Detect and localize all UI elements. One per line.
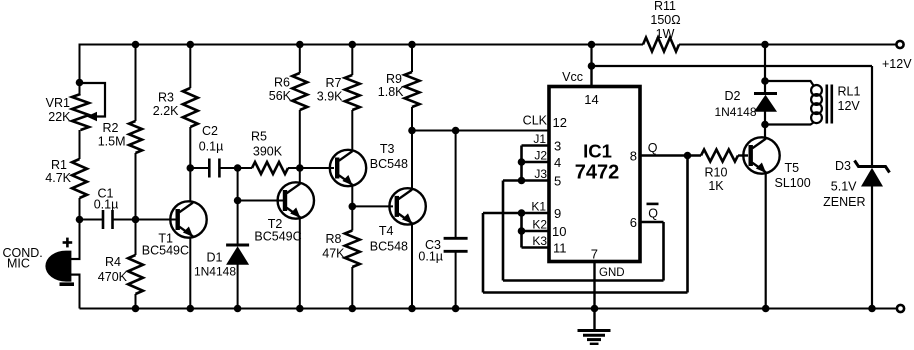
wire T2 collector [299, 168, 301, 184]
svg-text:0.1µ: 0.1µ [199, 140, 224, 154]
transistor T1 BC549C [170, 201, 206, 237]
transistor T2 BC549C [278, 182, 314, 218]
wire T4 collector [411, 131, 413, 190]
resistor R2 [129, 121, 142, 153]
node R3 top rail junction [187, 41, 195, 49]
diode D1 1N4148 [226, 244, 249, 247]
svg-text:J1: J1 [533, 132, 546, 146]
wire R5 right lead [288, 167, 334, 169]
wire R4 bottom lead [135, 294, 137, 309]
svg-text:D1: D1 [207, 251, 223, 265]
wire mic + stub [70, 258, 81, 260]
wire Qbar pin 6 [640, 221, 664, 224]
svg-text:K2: K2 [532, 218, 547, 232]
svg-text:R7: R7 [326, 76, 342, 90]
wire T5 emitter to rail [765, 173, 767, 309]
node R6 top rail junction [296, 41, 304, 49]
svg-text:R1: R1 [51, 158, 67, 172]
svg-text:T4: T4 [379, 224, 394, 238]
svg-text:K3: K3 [532, 234, 547, 248]
node R2 top rail junction [132, 41, 140, 49]
wire T1 collector [189, 168, 191, 202]
diode D2 1N4148 [754, 92, 777, 95]
svg-text:1.5M: 1.5M [98, 135, 126, 149]
transistor T4 BC548 [389, 188, 425, 224]
node C2 left junction [187, 164, 195, 172]
wire mic - stub [70, 274, 81, 276]
svg-text:Q: Q [648, 207, 658, 221]
wire T3 emitter junction to T4 base [352, 205, 393, 207]
node T1 base junction [132, 216, 140, 224]
wire relay coil top lead [765, 81, 814, 86]
svg-text:R8: R8 [326, 232, 342, 246]
wire CLK line [412, 130, 548, 132]
condenser mic body [45, 251, 71, 282]
wire D3 bottom lead [871, 187, 873, 309]
wire R3 bottom to C2 node [189, 127, 191, 168]
svg-text:IC1: IC1 [583, 141, 612, 162]
svg-text:3.9K: 3.9K [317, 90, 343, 104]
svg-text:10: 10 [552, 224, 566, 239]
svg-text:6: 6 [630, 215, 637, 230]
node K2 junction [518, 227, 526, 235]
wire R7 to T3 collector [351, 110, 353, 151]
svg-text:BC549C: BC549C [142, 244, 189, 258]
transistor T5 SL100 [743, 137, 779, 173]
svg-text:14: 14 [584, 92, 598, 107]
svg-text:1N4148: 1N4148 [194, 265, 236, 279]
node relay bottom junction [761, 121, 769, 129]
svg-text:C2: C2 [202, 124, 218, 138]
resistor R10 1K [701, 150, 738, 162]
svg-text:R2: R2 [103, 121, 119, 135]
wire R10 right lead to T5 base [738, 154, 748, 156]
wire VR1-R1 [79, 130, 81, 159]
wire C2 right lead [219, 167, 252, 169]
svg-text:CLK: CLK [523, 114, 548, 128]
wire J chain vertical [520, 146, 523, 181]
svg-text:56K: 56K [269, 89, 292, 103]
wire bottom rail [80, 308, 898, 310]
wire R9 bottom to CLK node [411, 107, 413, 131]
svg-text:5: 5 [554, 174, 561, 189]
node T2 base junction [234, 197, 242, 205]
svg-text:5.1V: 5.1V [831, 180, 857, 194]
wire C1 right lead [113, 219, 136, 221]
wire T3 emitter to junction [351, 185, 353, 206]
node D1 bottom rail junction [234, 305, 242, 313]
capacitor C1 plates [102, 210, 105, 229]
wire R4 top lead [135, 220, 137, 256]
resistor R8 [345, 231, 360, 268]
wire R9 top lead [411, 45, 413, 73]
node J2 junction [518, 158, 526, 166]
wire pin14 Vcc lead [590, 66, 592, 87]
node T3 emitter junction [349, 203, 357, 211]
relay core bars [825, 85, 828, 124]
node T5 emitter rail junction [762, 305, 770, 313]
resistor R9 [405, 72, 420, 107]
resistor R4 [128, 255, 143, 294]
svg-text:1N4148: 1N4148 [714, 105, 756, 119]
svg-text:47K: 47K [322, 247, 345, 261]
resistor R1 [72, 159, 87, 198]
wire K chain vertical [520, 213, 523, 248]
node Q feedback junction [684, 152, 692, 160]
node T2 collector junction [296, 164, 304, 172]
wire R1 to C1 node [79, 198, 81, 220]
svg-text:BC549C: BC549C [254, 230, 301, 244]
node T5 top rail junction [761, 41, 769, 49]
wire K feedback right vertical [686, 156, 689, 293]
wire J3 pin 5 [522, 179, 550, 182]
node Vcc sub-rail junction [588, 62, 596, 70]
wire R2 top lead [135, 45, 137, 122]
svg-text:R10: R10 [705, 166, 728, 180]
svg-text:7: 7 [591, 247, 598, 262]
svg-text:1W: 1W [656, 27, 675, 41]
wire J feedback bottom [503, 279, 664, 282]
zener D3 triangle [861, 168, 883, 187]
wire C3 bottom lead [455, 251, 457, 308]
wire D2 top lead [764, 81, 766, 94]
resistor VR1 (pot body) [72, 94, 89, 130]
wire K3 pin 11 [522, 246, 550, 249]
svg-text:R6: R6 [274, 76, 290, 90]
wire K feedback bottom [483, 291, 688, 294]
svg-text:R9: R9 [386, 72, 402, 86]
wire J1 pin 3 [522, 144, 550, 147]
wire T5 collector branch (crosses Vcc sub-rail) [764, 45, 766, 82]
svg-text:8: 8 [630, 149, 637, 164]
svg-text:J3: J3 [534, 167, 547, 181]
svg-text:T5: T5 [785, 161, 800, 175]
wire K1 pin 9 [483, 212, 549, 215]
svg-text:7472: 7472 [575, 162, 620, 184]
wire R8 top lead [351, 206, 353, 230]
svg-text:0.1µ: 0.1µ [418, 250, 443, 264]
svg-text:390K: 390K [253, 145, 283, 159]
node relay top junction [761, 77, 769, 85]
svg-text:D3: D3 [835, 159, 851, 173]
svg-text:T3: T3 [380, 142, 395, 156]
node R7 top rail junction [349, 41, 357, 49]
wire base node to T1 [136, 219, 177, 221]
resistor R3 [183, 88, 198, 127]
wire Vcc drop [590, 45, 592, 67]
wire R8 bottom lead [351, 267, 353, 309]
wire R7 top lead [351, 45, 353, 76]
wire Q pin 8 [640, 154, 701, 156]
wire C2 left lead [190, 167, 209, 169]
wire T2 emitter to rail [299, 218, 301, 309]
IC IC1 7472 body [549, 87, 640, 262]
node VR1 top junction [76, 79, 84, 87]
wire J2 pin 4 [522, 161, 550, 164]
mic minus sign [60, 282, 75, 286]
wire R6 top lead [299, 45, 301, 74]
node Vcc rail junction [588, 41, 596, 49]
svg-text:9: 9 [554, 206, 561, 221]
node T1 emitter rail junction [187, 305, 195, 313]
svg-text:VR1: VR1 [46, 96, 70, 110]
resistor R11 150 ohm [643, 38, 679, 52]
svg-text:3: 3 [554, 139, 561, 154]
wire VR1 wiper [80, 83, 106, 117]
wire +12V top rail (left section to R11) [80, 44, 644, 46]
wire D1 bottom lead [237, 265, 239, 309]
resistor R7 [345, 75, 360, 110]
zener D3 bar [855, 161, 890, 173]
terminal +12V [896, 41, 903, 48]
node T2 emitter rail junction [296, 305, 304, 313]
ground symbol [593, 309, 595, 331]
svg-text:470K: 470K [98, 270, 128, 284]
svg-text:1.8K: 1.8K [378, 85, 404, 99]
svg-text:+12V: +12V [882, 57, 912, 71]
wire D2 bottom lead [764, 112, 766, 125]
wire R2 bottom lead [135, 153, 137, 220]
wire T2 base [238, 200, 284, 202]
resistor R5 390K [252, 162, 288, 174]
svg-text:4: 4 [554, 155, 561, 170]
node R4 bottom rail junction [132, 305, 140, 313]
svg-text:BC548: BC548 [370, 240, 408, 254]
wire K feedback left vertical [482, 213, 485, 293]
svg-text:1K: 1K [708, 179, 724, 193]
wire relay coil bottom lead [765, 123, 814, 125]
wire pin 7 GND lead [593, 262, 595, 309]
wire J feedback vertical (crosses K1 wire) [502, 181, 505, 281]
svg-text:R4: R4 [105, 255, 121, 269]
svg-text:BC548: BC548 [370, 157, 408, 171]
transistor T3 BC548 [330, 150, 366, 186]
wire R5 node down to T2 base [237, 168, 239, 201]
svg-text:Vcc: Vcc [562, 70, 583, 84]
svg-text:R3: R3 [158, 91, 174, 105]
capacitor C2 plates [208, 159, 211, 178]
node J3 junction [518, 177, 526, 185]
node T4 emitter rail junction [408, 305, 416, 313]
svg-text:R5: R5 [251, 130, 267, 144]
svg-text:150Ω: 150Ω [650, 13, 680, 27]
wire R6 bottom lead [299, 110, 301, 168]
svg-text:MIC: MIC [7, 257, 30, 271]
resistor R6 [292, 73, 307, 110]
wire VR1 wiper arrow [87, 112, 98, 122]
wire C1 node to mic + [79, 220, 81, 260]
svg-text:RL1: RL1 [838, 85, 861, 99]
wire T1 emitter to rail [189, 237, 191, 309]
wire left rail top segment (VR1/R1 column) [79, 44, 81, 95]
svg-text:11: 11 [553, 241, 567, 256]
svg-text:2.2K: 2.2K [153, 104, 179, 118]
svg-text:Q: Q [648, 141, 658, 155]
capacitor C3 plates [444, 237, 468, 240]
wire mic - to bottom rail [79, 275, 81, 309]
node C3 bottom rail junction [452, 305, 460, 313]
node T4 collector junction [408, 127, 416, 135]
wire T5 collector [764, 125, 766, 138]
node K1 junction [518, 209, 526, 217]
node R8 bottom rail junction [349, 305, 357, 313]
svg-text:0.1µ: 0.1µ [94, 198, 119, 212]
svg-text:SL100: SL100 [775, 176, 811, 190]
svg-text:4.7K: 4.7K [45, 171, 71, 185]
wire Vcc sub-rail [592, 65, 873, 67]
svg-text:R11: R11 [654, 0, 676, 13]
wire K2 pin 10 [522, 230, 550, 233]
wire D1 top lead [237, 201, 239, 246]
svg-text:ZENER: ZENER [823, 195, 865, 209]
wire R3 top lead [189, 45, 191, 89]
wire J3 left extension [503, 179, 522, 182]
wire C1 left lead [80, 219, 104, 221]
svg-text:22K: 22K [48, 110, 71, 124]
node R9 top rail junction [408, 41, 416, 49]
mic plus sign [63, 241, 73, 244]
wire C3 top lead [455, 131, 457, 239]
svg-text:K1: K1 [531, 200, 546, 214]
wire +12V top rail (R11 to +12V terminal) [679, 44, 898, 46]
svg-text:12V: 12V [838, 99, 861, 113]
node R5 left junction [234, 164, 242, 172]
wire T4 emitter to rail [411, 224, 413, 309]
node GND rail junction [591, 305, 599, 313]
node C1 left junction [76, 216, 84, 224]
svg-text:12: 12 [553, 115, 567, 130]
svg-text:J2: J2 [534, 149, 547, 163]
terminal 0V [897, 305, 904, 312]
node D3 bottom rail junction [868, 305, 876, 313]
node C3 top junction [452, 127, 460, 135]
relay RL1 coil loops [811, 85, 822, 96]
wire D3 top lead [871, 66, 873, 166]
svg-text:GND: GND [599, 267, 625, 279]
svg-text:D2: D2 [725, 89, 741, 103]
wire J feedback right vertical [662, 222, 665, 281]
